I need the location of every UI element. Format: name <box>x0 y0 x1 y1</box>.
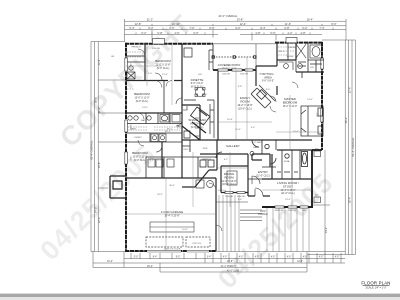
svg-text:22'-6": 22'-6" <box>347 87 351 94</box>
svg-text:14'-0": 14'-0" <box>307 99 313 101</box>
svg-text:AREA: AREA <box>264 75 272 79</box>
svg-text:ENTRY: ENTRY <box>258 170 268 174</box>
svg-text:3'-0": 3'-0" <box>251 127 256 129</box>
svg-text:8'-4": 8'-4" <box>153 257 158 259</box>
svg-text:20'-4": 20'-4" <box>147 266 153 268</box>
kitchen wall column <box>182 70 218 140</box>
svg-text:10'-10": 10'-10" <box>172 22 180 26</box>
svg-text:SCALE: 1/4" = 1'-0": SCALE: 1/4" = 1'-0" <box>366 286 387 289</box>
svg-text:BEDROOM: BEDROOM <box>134 92 150 96</box>
room label covered patio <box>218 63 241 70</box>
svg-text:3'-4": 3'-4" <box>207 257 212 259</box>
living window labels <box>225 196 307 212</box>
bottom gray band <box>0 294 400 297</box>
svg-text:5'-0" HALL: 5'-0" HALL <box>252 141 263 144</box>
garage door dashed <box>146 237 210 247</box>
window top wall bedroom <box>153 37 298 44</box>
gallery walls <box>182 140 312 154</box>
svg-text:21'-2": 21'-2" <box>147 18 154 22</box>
svg-text:4'-0": 4'-0" <box>148 73 153 75</box>
svg-text:62'-4" OVERALL: 62'-4" OVERALL <box>90 140 94 160</box>
svg-text:10'-0": 10'-0" <box>182 229 188 231</box>
room label kitchen <box>188 118 206 129</box>
room label master bedroom <box>283 97 298 108</box>
svg-text:COVERED PATIO: COVERED PATIO <box>218 63 241 67</box>
svg-text:5'-8": 5'-8" <box>157 31 162 35</box>
svg-text:13'-0": 13'-0" <box>142 107 148 109</box>
svg-text:62'-4" OVERALL: 62'-4" OVERALL <box>351 137 355 157</box>
svg-text:8'-0": 8'-0" <box>331 22 336 26</box>
room label living room study <box>277 181 299 195</box>
title floor plan <box>361 281 390 290</box>
svg-text:(9'-0" CLG.): (9'-0" CLG.) <box>134 159 147 162</box>
svg-text:12'-4": 12'-4" <box>235 129 241 131</box>
A/C pads <box>314 151 321 203</box>
svg-text:10'-2": 10'-2" <box>107 261 113 263</box>
water heater garage <box>196 180 213 188</box>
interior thin dimension lines <box>126 44 322 251</box>
svg-text:M.BA.: M.BA. <box>284 160 290 163</box>
svg-text:W.I.C.: W.I.C. <box>167 129 173 131</box>
svg-text:(12'-0" CLG.): (12'-0" CLG.) <box>256 174 270 177</box>
closet shelf dashes left wing <box>127 52 182 160</box>
misc annotation texts <box>130 44 321 232</box>
small text annotations scattered <box>111 47 319 197</box>
outer wall right step <box>312 150 322 207</box>
living room bottom windows <box>275 206 308 208</box>
svg-text:BEDROOM: BEDROOM <box>132 151 148 155</box>
svg-text:14'-2": 14'-2" <box>324 227 328 234</box>
svg-text:9'-2": 9'-2" <box>235 26 240 30</box>
svg-text:4'-0": 4'-0" <box>223 257 228 259</box>
svg-text:7'-0": 7'-0" <box>189 26 194 30</box>
svg-text:8'X8' O.H.: 8'X8' O.H. <box>193 243 202 245</box>
svg-text:5'-2": 5'-2" <box>302 26 307 30</box>
window labels under walls <box>131 47 320 251</box>
porch extension line comb left <box>219 195 239 252</box>
breakfast bay diagonal <box>182 122 206 140</box>
room label bedroom 4 <box>132 151 148 162</box>
svg-text:2650 SH: 2650 SH <box>237 196 245 198</box>
hall niche and arcs <box>216 140 276 179</box>
hall and closet partitions mid <box>146 157 182 178</box>
window left wall bedrooms <box>125 58 128 164</box>
svg-text:3050 SH: 3050 SH <box>240 74 248 76</box>
room label sitting area <box>262 72 274 83</box>
svg-text:GALLERY: GALLERY <box>226 144 240 148</box>
master suite partitions <box>288 43 324 78</box>
svg-text:W.I.C.: W.I.C. <box>279 51 285 53</box>
svg-text:4'-0": 4'-0" <box>271 257 276 259</box>
svg-text:HALL: HALL <box>253 146 259 149</box>
svg-text:BATH: BATH <box>130 128 136 131</box>
svg-text:PORCH: PORCH <box>258 212 267 216</box>
svg-text:BEDROOM: BEDROOM <box>155 59 171 63</box>
master closet shelves <box>278 47 295 55</box>
top dimension labels <box>129 14 336 35</box>
garage door sill lines <box>147 250 209 252</box>
svg-text:4'-0": 4'-0" <box>303 257 308 259</box>
svg-text:19'-2" X 16'-8": 19'-2" X 16'-8" <box>237 104 252 107</box>
left wing interior horizontals <box>126 81 216 179</box>
svg-text:4'-6": 4'-6" <box>174 31 179 35</box>
master bath mid partitions <box>265 144 308 179</box>
svg-text:41'-1" PORCH: 41'-1" PORCH <box>221 266 236 268</box>
svg-text:LIN.: LIN. <box>198 74 202 76</box>
svg-text:TUB: TUB <box>316 44 321 46</box>
outer wall right upper <box>321 42 323 150</box>
svg-text:15'-0": 15'-0" <box>293 131 299 133</box>
kitchen cabinets <box>184 45 214 138</box>
svg-text:4'-0": 4'-0" <box>319 257 324 259</box>
svg-text:18'-4": 18'-4" <box>347 197 351 204</box>
svg-text:36'-2": 36'-2" <box>344 117 348 124</box>
svg-text:9'-8": 9'-8" <box>238 86 243 88</box>
entry front wall and door <box>248 154 270 196</box>
room label bedroom 2 <box>155 59 171 70</box>
family room top wall with windows <box>213 69 256 71</box>
utility fixtures <box>148 159 174 167</box>
svg-text:8'-6": 8'-6" <box>209 26 214 30</box>
svg-text:(10'-0" CLG.): (10'-0" CLG.) <box>238 108 252 111</box>
svg-text:2680 FXD: 2680 FXD <box>274 210 284 212</box>
svg-text:6'-2": 6'-2" <box>224 159 229 161</box>
svg-text:ROOM: ROOM <box>240 100 250 104</box>
covered patio post line <box>213 56 256 58</box>
svg-text:BEDROOM: BEDROOM <box>283 100 298 104</box>
family room window row <box>218 69 253 71</box>
svg-text:16'X8' O.H. DOOR: 16'X8' O.H. DOOR <box>164 249 181 251</box>
room label gallery <box>226 144 240 148</box>
svg-text:12'-8": 12'-8" <box>135 22 142 26</box>
svg-text:23'-8": 23'-8" <box>237 18 244 22</box>
svg-text:8'-4": 8'-4" <box>260 26 265 30</box>
svg-text:12'-0": 12'-0" <box>97 217 101 224</box>
entry porch steps <box>240 210 262 221</box>
outer wall top right wing <box>275 42 323 44</box>
outer wall top left wing <box>125 43 213 45</box>
svg-text:FRENCH: FRENCH <box>131 47 141 49</box>
svg-text:8'-0": 8'-0" <box>266 89 271 91</box>
svg-text:6'-8": 6'-8" <box>284 26 289 30</box>
master bath fixtures <box>279 44 322 70</box>
utility room partitions <box>182 140 216 178</box>
dining room walls <box>221 154 248 196</box>
svg-text:STUDY: STUDY <box>283 184 293 188</box>
garage storage dashed <box>150 222 194 232</box>
svg-text:A/C: A/C <box>315 148 319 151</box>
svg-text:BATH: BATH <box>141 119 147 122</box>
right dimension labels <box>324 87 355 234</box>
svg-text:12'-4": 12'-4" <box>97 59 101 66</box>
room label dining room <box>222 172 237 186</box>
svg-text:PAN.: PAN. <box>177 125 182 128</box>
svg-text:3050 SH: 3050 SH <box>222 74 230 76</box>
svg-text:11'-2": 11'-2" <box>97 107 101 113</box>
svg-text:12'-6": 12'-6" <box>297 261 303 263</box>
left dimension lines <box>91 42 125 252</box>
svg-text:W.I.C.: W.I.C. <box>165 131 171 133</box>
room label entry <box>256 170 270 177</box>
svg-text:8'-2": 8'-2" <box>148 26 153 30</box>
svg-text:(9'-0" CLG.): (9'-0" CLG.) <box>136 100 149 103</box>
svg-text:4'-0": 4'-0" <box>255 257 260 259</box>
kitchen counters <box>182 105 200 136</box>
svg-text:5'-4": 5'-4" <box>238 199 243 201</box>
left bumpout <box>110 176 126 198</box>
covered patio left edge <box>213 44 275 66</box>
svg-text:11'-8" X 11'-0": 11'-8" X 11'-0" <box>133 155 148 158</box>
svg-text:(10'-0" CLG.): (10'-0" CLG.) <box>222 183 236 186</box>
top dimension ticks <box>136 24 333 42</box>
top dimension lines <box>125 19 347 42</box>
dinette table <box>195 88 205 97</box>
svg-text:11'-6": 11'-6" <box>285 22 291 26</box>
svg-text:FLOOR PLAN: FLOOR PLAN <box>361 281 390 286</box>
right wing interior <box>256 43 324 179</box>
svg-text:(9'-0" CLG.): (9'-0" CLG.) <box>191 86 204 89</box>
garage door openings <box>147 250 209 252</box>
svg-text:7'-4": 7'-4" <box>319 26 324 30</box>
svg-text:5'-6": 5'-6" <box>270 31 275 35</box>
svg-text:10'-6": 10'-6" <box>97 162 101 169</box>
svg-text:LNDRY: LNDRY <box>134 137 142 139</box>
svg-text:4'-2": 4'-2" <box>287 31 292 35</box>
svg-text:12'-4": 12'-4" <box>240 22 247 26</box>
svg-text:(9'-0" CLG.): (9'-0" CLG.) <box>157 67 170 70</box>
porch edge line <box>216 201 248 203</box>
svg-text:2650 SH: 2650 SH <box>225 196 233 198</box>
left closet column fixtures <box>127 66 135 79</box>
dining windows <box>225 191 245 193</box>
room label family room <box>237 96 252 111</box>
svg-text:4'-8": 4'-8" <box>300 31 305 35</box>
svg-text:A/C: A/C <box>315 194 319 197</box>
svg-text:4'-0": 4'-0" <box>239 257 244 259</box>
left dimension labels <box>90 59 102 224</box>
left wing interior verticals <box>145 44 182 178</box>
svg-text:4'-0": 4'-0" <box>287 257 292 259</box>
svg-text:9'-0": 9'-0" <box>203 94 208 96</box>
garage right wall <box>215 178 217 251</box>
svg-text:30'-4" X 23'-8": 30'-4" X 23'-8" <box>164 214 179 217</box>
svg-text:LIN.: LIN. <box>310 67 314 69</box>
svg-text:3050 SH: 3050 SH <box>152 48 160 50</box>
svg-text:28'-6": 28'-6" <box>93 97 97 104</box>
outer wall bottom living room <box>262 206 313 208</box>
svg-text:44'-0" OVERALL: 44'-0" OVERALL <box>218 14 238 18</box>
bottom dimension labels <box>107 257 339 273</box>
room label bedroom 3 <box>134 92 150 103</box>
svg-text:NOOK: NOOK <box>205 159 212 161</box>
watermark date line 4 <box>212 167 339 294</box>
bed master <box>301 106 323 136</box>
svg-text:6'-0": 6'-0" <box>193 31 198 35</box>
watermark COPYRIGHT line 1 <box>54 9 198 153</box>
svg-text:12'-0": 12'-0" <box>162 74 168 76</box>
dining table <box>227 171 237 185</box>
porch extension line comb right <box>267 208 309 252</box>
right dimension lines <box>307 40 355 255</box>
bottom dimension lines <box>91 252 345 273</box>
svg-text:4'-0": 4'-0" <box>335 257 340 259</box>
svg-text:PDR: PDR <box>203 148 208 150</box>
svg-text:43'-6" SLAB: 43'-6" SLAB <box>227 269 240 272</box>
svg-text:(11'-0" CLG.): (11'-0" CLG.) <box>281 192 295 195</box>
svg-text:9'-0": 9'-0" <box>176 257 181 259</box>
door arcs extra <box>138 49 298 231</box>
svg-text:ROOM: ROOM <box>224 175 234 179</box>
watermark date line 2 <box>34 139 161 266</box>
svg-text:2680 FXD: 2680 FXD <box>287 210 297 212</box>
entry door arc <box>252 176 260 184</box>
window right wall master <box>321 58 324 122</box>
svg-text:UTILITY: UTILITY <box>182 149 191 151</box>
outer wall left <box>125 43 127 251</box>
svg-text:24'-8": 24'-8" <box>93 207 97 214</box>
room label porch <box>258 209 267 216</box>
outer wall bottom garage <box>125 250 216 252</box>
svg-text:6'-5": 6'-5" <box>169 26 174 30</box>
dining angled wall <box>182 140 217 187</box>
svg-text:13'-0" X 11'-0": 13'-0" X 11'-0" <box>135 96 150 99</box>
gallery column <box>250 152 254 156</box>
bottom dimension ticks <box>93 252 341 273</box>
room label garage <box>161 210 184 217</box>
svg-text:21'-8": 21'-8" <box>227 261 233 263</box>
svg-text:20'-2": 20'-2" <box>157 194 163 196</box>
svg-text:13'-4": 13'-4" <box>285 199 291 201</box>
svg-text:16'-4": 16'-4" <box>307 18 314 22</box>
kitchen island <box>191 107 211 125</box>
svg-text:16'-8": 16'-8" <box>227 119 233 121</box>
svg-text:3 CAR GARAGE: 3 CAR GARAGE <box>161 210 184 214</box>
svg-text:3'-8": 3'-8" <box>255 31 260 35</box>
fireplace corner family room <box>251 85 275 108</box>
patio posts <box>212 56 256 58</box>
door arcs bedrooms <box>155 73 276 152</box>
left bath fixtures <box>128 115 180 142</box>
svg-text:30'-4": 30'-4" <box>169 185 175 187</box>
room label dinette <box>191 78 204 89</box>
svg-text:9'-0" X 8'-0": 9'-0" X 8'-0" <box>262 81 274 83</box>
svg-text:10' CLG: 10' CLG <box>218 190 226 192</box>
svg-text:5'-0": 5'-0" <box>134 257 139 259</box>
svg-text:5'-4": 5'-4" <box>129 26 134 30</box>
bath cluster partitions <box>126 56 182 142</box>
svg-text:3050 SH: 3050 SH <box>288 47 296 49</box>
svg-text:6'-2": 6'-2" <box>141 31 146 35</box>
